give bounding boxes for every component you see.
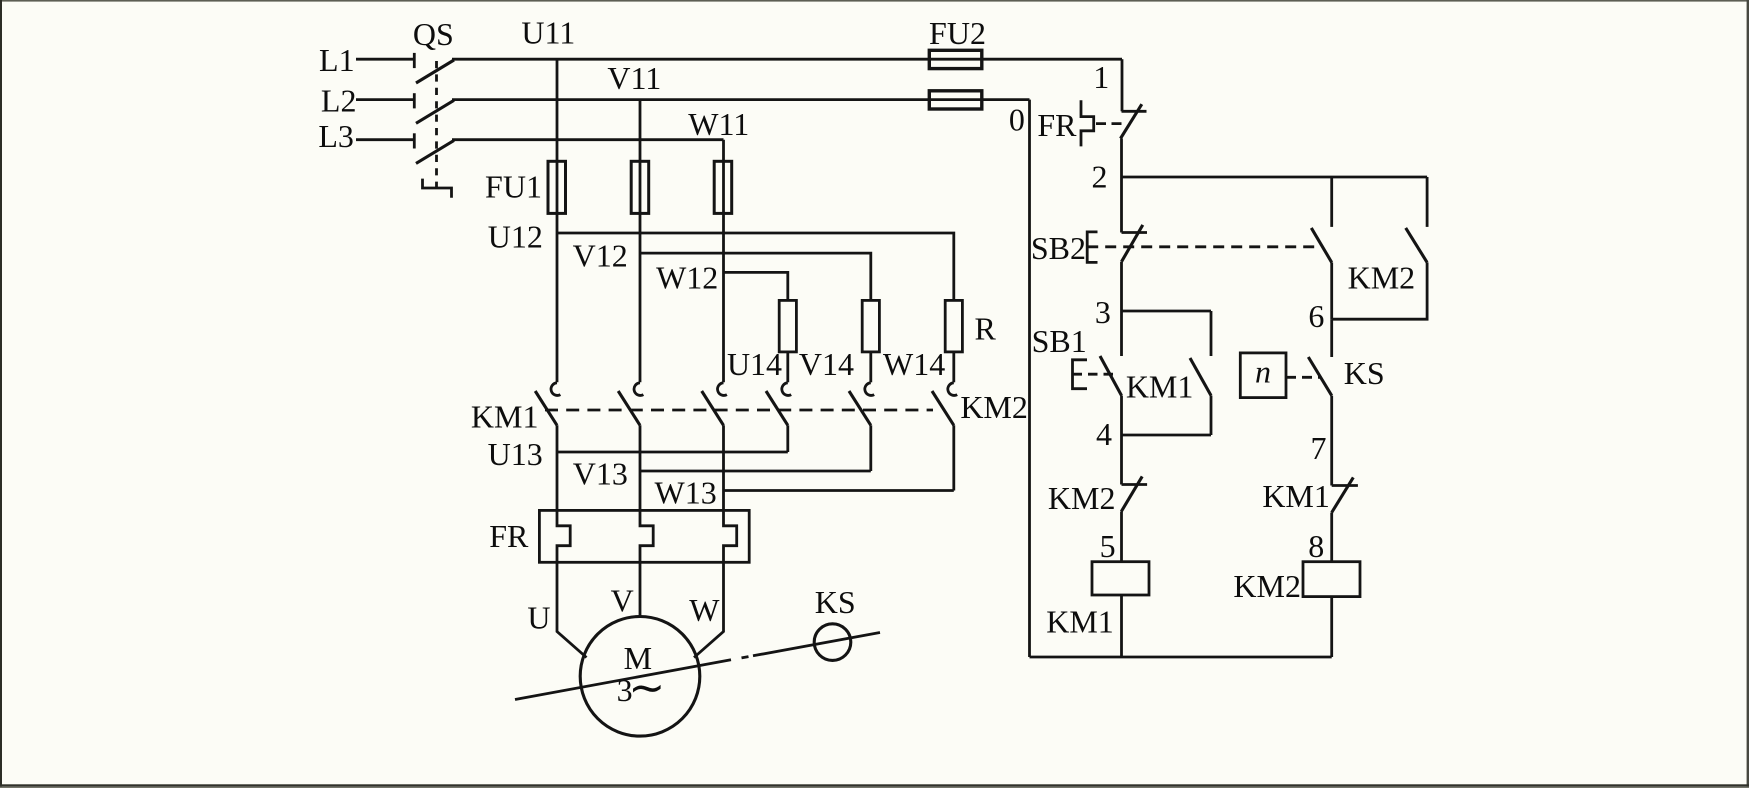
wire W13 <box>724 489 954 492</box>
motor M circle <box>580 617 700 737</box>
wire below KM2 contact 3 <box>952 425 955 490</box>
contactor KM1 main contact 3 <box>702 383 727 426</box>
wire KM2 NC to coil KM1 <box>1120 512 1123 562</box>
svg-text:V12: V12 <box>573 238 628 274</box>
wire bottom rail <box>1030 656 1332 659</box>
svg-text:6: 6 <box>1308 298 1324 334</box>
svg-text:R: R <box>975 311 997 347</box>
svg-text:2: 2 <box>1092 159 1108 195</box>
fuse FU1 element 1 <box>548 161 566 213</box>
coil KM1 <box>1092 562 1149 595</box>
pushbutton SB2 NC contact <box>1122 225 1148 262</box>
speed relay actuator dashed <box>1286 376 1320 379</box>
svg-text:V: V <box>611 583 634 619</box>
wire V13 <box>640 470 871 473</box>
contactor KM1 main contact 2 <box>618 383 643 426</box>
switch QS linkage dashed <box>435 61 438 187</box>
speed relay n box <box>1240 353 1286 398</box>
svg-text:W: W <box>689 592 720 628</box>
wire coil KM2 to rail <box>1330 597 1333 657</box>
wire node 3 branch <box>1122 310 1212 313</box>
svg-text:KM1: KM1 <box>1126 369 1194 405</box>
fuse FU2 element 1 <box>929 50 982 68</box>
svg-text:∼: ∼ <box>628 664 665 713</box>
svg-text:QS: QS <box>413 16 454 52</box>
fuse FU2 element 2 <box>929 91 982 109</box>
svg-text:U14: U14 <box>727 346 782 382</box>
svg-text:W12: W12 <box>656 259 718 295</box>
switch QS pole 1 blade <box>416 60 454 83</box>
wire L2 lead <box>356 98 414 101</box>
motor shaft dash <box>742 657 749 658</box>
wire phase V drop upper <box>639 100 642 383</box>
wire bus U11 <box>452 58 1122 61</box>
contactor KM2 main contact 3 <box>932 383 957 426</box>
CONTROL CIRCUIT <box>929 15 1427 657</box>
switch QS handle <box>423 179 452 198</box>
switch QS pole 3 blade <box>416 140 454 163</box>
switch QS pole 2 blade <box>416 100 454 123</box>
speed switch KS circle <box>814 624 851 661</box>
wire FR contact to node 2 <box>1120 139 1123 178</box>
thermal relay FR NC contact <box>1121 104 1147 138</box>
wire below resistor R2 <box>869 352 872 382</box>
switch QS pole 2 fixed contact <box>413 93 416 108</box>
wire W12 to resistor R1 <box>724 272 788 300</box>
svg-text:KM1: KM1 <box>1262 478 1330 514</box>
svg-text:V11: V11 <box>607 60 661 96</box>
svg-text:FR: FR <box>489 518 529 554</box>
wire below KM2 contact 2 <box>869 425 872 471</box>
wire SB1 to KM2 NC <box>1120 396 1123 485</box>
svg-text:L2: L2 <box>321 83 357 119</box>
wire node 4 branch <box>1122 434 1212 437</box>
resistor R phase W <box>945 300 962 352</box>
heater element phase V and wire to motor <box>640 425 653 617</box>
svg-text:KM2: KM2 <box>960 389 1028 425</box>
svg-text:n: n <box>1255 354 1271 390</box>
svg-text:8: 8 <box>1308 528 1324 564</box>
thermal relay FR element symbol <box>1081 100 1094 146</box>
contactor KM1 main contact 1 <box>535 383 560 426</box>
resistor R phase V <box>862 300 879 352</box>
svg-text:FU2: FU2 <box>929 15 986 51</box>
svg-text:4: 4 <box>1096 416 1112 452</box>
wire L3 lead <box>356 138 414 141</box>
wire U13 <box>557 451 788 454</box>
contactor KM2 self-hold contact 2 <box>1332 177 1427 319</box>
contactor KM2 main contact 2 <box>849 383 874 426</box>
motor shaft line segment 2 <box>753 633 880 656</box>
svg-text:V13: V13 <box>573 456 628 492</box>
contactor linkage dashed <box>545 409 933 412</box>
wire node 2 to SB2 <box>1120 177 1123 233</box>
wire node 2 bus <box>1122 176 1428 179</box>
coil KM2 <box>1303 562 1360 597</box>
switch QS pole 3 fixed contact <box>413 133 416 148</box>
wire node 6 to KS <box>1330 319 1333 357</box>
svg-text:L1: L1 <box>319 42 355 78</box>
wire below resistor R1 <box>786 352 789 382</box>
svg-text:KM1: KM1 <box>471 399 539 435</box>
motor shaft line segment 1 <box>515 660 731 700</box>
svg-text:U11: U11 <box>521 15 575 51</box>
svg-text:SB1: SB1 <box>1032 323 1087 359</box>
svg-text:1: 1 <box>1093 59 1109 95</box>
contactor KM2 interlock NC contact <box>1121 476 1147 511</box>
wire bus W11 <box>452 138 724 141</box>
svg-text:5: 5 <box>1100 528 1116 564</box>
svg-text:KS: KS <box>1344 355 1385 391</box>
svg-text:7: 7 <box>1311 430 1327 466</box>
wire phase U drop upper <box>556 59 559 382</box>
wire V11 to 0 rail <box>1028 100 1031 657</box>
svg-text:U: U <box>527 600 550 636</box>
pushbutton SB1 NO contact <box>1100 311 1122 396</box>
wire U11 to control column <box>1121 59 1124 111</box>
speed switch KS NO contact <box>1308 357 1331 396</box>
contactor KM1 auxiliary NO contact <box>1190 311 1211 435</box>
svg-text:KM2: KM2 <box>1233 568 1301 604</box>
svg-text:KM2: KM2 <box>1048 480 1116 516</box>
wire bus V11 <box>452 98 1030 101</box>
svg-text:L3: L3 <box>318 118 354 154</box>
pushbutton SB2 actuator dashed <box>1087 245 1318 248</box>
heater element phase U and wire to motor <box>557 425 587 657</box>
svg-text:0: 0 <box>1009 102 1025 138</box>
svg-text:KS: KS <box>815 584 856 620</box>
POWER CIRCUIT <box>318 15 1122 737</box>
switch QS pole 1 fixed contact <box>413 53 416 68</box>
svg-text:U12: U12 <box>488 219 543 255</box>
svg-text:W14: W14 <box>883 346 945 382</box>
svg-text:KM1: KM1 <box>1046 603 1114 639</box>
wire V12 to resistor R2 <box>640 253 871 300</box>
wire SB2 to node 3 <box>1120 262 1123 311</box>
wire coil KM1 to rail <box>1120 595 1123 657</box>
svg-text:W11: W11 <box>688 106 749 142</box>
thermal relay FR actuator dashed <box>1096 122 1126 125</box>
svg-text:KM2: KM2 <box>1348 259 1416 295</box>
fuse FU1 element 2 <box>631 161 649 213</box>
wire KS to KM1 NC <box>1330 396 1333 486</box>
svg-text:V14: V14 <box>799 346 854 382</box>
svg-text:FR: FR <box>1037 107 1077 143</box>
wire phase W drop upper <box>722 140 725 383</box>
heater element phase W and wire to motor <box>694 425 737 657</box>
thermal relay FR heater box <box>539 510 749 562</box>
wire L1 lead <box>356 58 414 61</box>
wire KM1 NC to coil KM2 <box>1330 513 1333 562</box>
resistor R phase U <box>779 300 796 352</box>
svg-text:3: 3 <box>1095 294 1111 330</box>
contactor KM1 interlock NC contact <box>1332 477 1358 512</box>
wire below resistor R3 <box>952 352 955 382</box>
wire U12 to resistor R3 <box>557 233 954 300</box>
fuse FU1 element 3 <box>714 161 732 213</box>
svg-text:U13: U13 <box>488 436 543 472</box>
contactor KM2 main contact 1 <box>766 383 791 426</box>
pushbutton SB2 button bracket <box>1087 232 1097 263</box>
svg-text:FU1: FU1 <box>485 169 542 205</box>
wire below KM2 contact 1 <box>786 425 789 452</box>
svg-text:W13: W13 <box>654 475 716 511</box>
svg-text:SB2: SB2 <box>1031 230 1086 266</box>
contactor KM2 self-hold contact 1 <box>1311 177 1331 319</box>
pushbutton SB1 button bracket <box>1073 360 1088 389</box>
pushbutton SB1 actuator dashed <box>1073 373 1114 376</box>
